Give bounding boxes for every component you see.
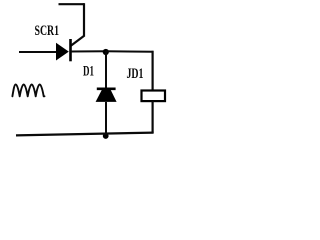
svg-text:D1: D1 [83, 63, 94, 79]
wire gate diagonal [71, 36, 85, 47]
svg-text:SCR1: SCR1 [35, 23, 60, 39]
diode D1 [96, 89, 117, 102]
node junction bottom [103, 133, 109, 139]
wire node to right corner [106, 50, 154, 53]
wire diode to bottom rail [105, 102, 107, 136]
wire main rail cathode to node [71, 50, 107, 52]
wire right rail lower [152, 101, 154, 133]
wire node to diode [105, 51, 107, 89]
relay coil JD1 [142, 91, 166, 102]
node junction top [103, 49, 109, 55]
wire right rail upper [152, 51, 154, 91]
wire anode lead [19, 51, 57, 53]
wire gate top rail [59, 3, 85, 5]
winding secondary coil [12, 84, 44, 96]
thyristor SCR1 [56, 39, 71, 61]
svg-text:JD1: JD1 [127, 66, 144, 82]
wire bottom rail [16, 133, 154, 136]
wire gate riser [83, 3, 85, 36]
